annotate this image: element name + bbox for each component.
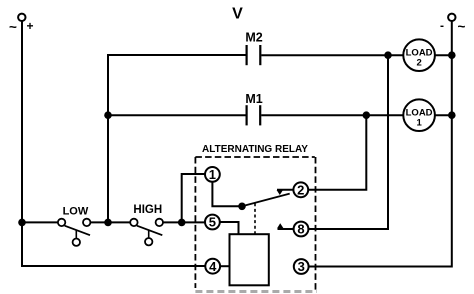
wire M1 row [108, 114, 246, 116]
load LOAD1 [403, 99, 435, 131]
contact M1 [247, 105, 261, 125]
svg-text:LOW: LOW [63, 206, 89, 218]
svg-text:5: 5 [209, 215, 216, 230]
float switch HIGH [130, 219, 163, 246]
wire switch row segment C [163, 221, 205, 223]
relay box bottom edge (grey dashed) [195, 290, 317, 293]
wire terminal 5 to coil [220, 222, 239, 234]
svg-text:8: 8 [297, 222, 304, 237]
wire switch row segment B [90, 221, 130, 223]
relay moving blade [242, 194, 290, 207]
svg-text:4: 4 [209, 259, 217, 274]
wire M2 branch vertical [108, 55, 246, 222]
terminal 2 [293, 182, 308, 197]
svg-text:+: + [26, 19, 33, 33]
wire left rail [22, 21, 205, 266]
junction LOAD1 row / terminal 2 riser [363, 111, 371, 119]
svg-text:M2: M2 [245, 31, 262, 45]
wire switch row segment A [22, 221, 58, 223]
svg-text:V: V [232, 6, 243, 23]
relay box dashed border [195, 157, 315, 290]
terminal 3 [294, 259, 309, 274]
wire LOAD2 to right rail [435, 54, 452, 56]
junction LOAD2 row / terminal 8 riser [384, 51, 392, 59]
svg-text:1: 1 [416, 117, 422, 128]
svg-text:HIGH: HIGH [133, 204, 162, 216]
junction terminal-1 riser [178, 219, 186, 227]
wire terminal 2 to LOAD1 row [308, 115, 366, 190]
wire M2 to LOAD2 [261, 54, 403, 56]
wire right rail [309, 21, 452, 267]
junction relay pivot [238, 203, 246, 211]
svg-text:2: 2 [297, 183, 304, 198]
svg-text:1: 1 [209, 167, 216, 182]
wire terminal-1 riser [182, 174, 205, 222]
relay contact arrow at 8 (points up) [277, 223, 283, 228]
wire LOAD1 to right rail [435, 114, 452, 116]
contact M2 [247, 45, 261, 65]
svg-text:ALTERNATING RELAY: ALTERNATING RELAY [202, 144, 308, 155]
wire terminal 8 stub [278, 228, 294, 230]
svg-text:~: ~ [9, 19, 17, 34]
svg-text:2: 2 [416, 57, 421, 68]
junction M1 branch [104, 111, 112, 119]
wire terminal 4 to coil [220, 265, 229, 267]
svg-text:~: ~ [458, 19, 466, 34]
relay coil box [230, 234, 269, 285]
junction right rail LOAD1 row [448, 111, 456, 119]
wire M1 to LOAD1 [261, 114, 403, 116]
junction right rail LOAD2 row [448, 51, 456, 59]
wire terminal 2 stub [277, 189, 294, 191]
wire terminal 1 to pivot [212, 182, 239, 207]
terminal 4 [205, 259, 220, 274]
load LOAD2 [403, 39, 435, 71]
float switch LOW [58, 219, 91, 246]
terminal 1 [205, 167, 220, 182]
svg-text:M1: M1 [245, 92, 262, 106]
svg-text:3: 3 [298, 259, 305, 274]
terminal T+ (AC source left) [18, 14, 25, 21]
wire terminal 8 to LOAD2 row [308, 55, 388, 229]
relay contact arrow at 2 (points down) [277, 190, 283, 195]
junction M2-branch switch row [104, 219, 112, 227]
mechanical link (dashed) [254, 203, 256, 234]
svg-text:-: - [440, 18, 444, 32]
terminal T- (AC source right) [448, 14, 455, 21]
terminal 8 [294, 222, 309, 237]
terminal 5 [205, 215, 220, 230]
junction left rail switch row [18, 219, 26, 227]
